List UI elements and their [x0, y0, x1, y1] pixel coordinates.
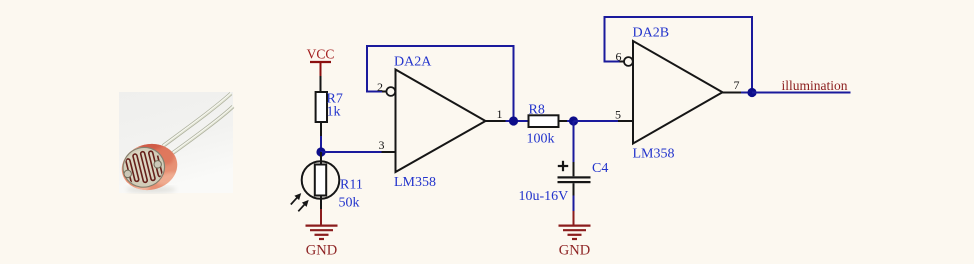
wire node to pin 5: [574, 120, 619, 122]
svg-text:100k: 100k: [527, 132, 555, 147]
wire R8 to node: [559, 120, 568, 122]
wire output pin 7: [723, 92, 742, 94]
svg-text:R8: R8: [529, 102, 545, 117]
svg-text:10u-16V: 10u-16V: [519, 189, 569, 204]
lead 1: [163, 93, 231, 146]
zigzag electrode: [125, 148, 163, 185]
pin 2 bubble: [386, 87, 395, 96]
svg-text:6: 6: [616, 50, 622, 64]
svg-text:2: 2: [377, 80, 383, 94]
LDR photo: [116, 92, 233, 197]
photoresistor R11: [302, 161, 340, 199]
wire node to pin 3: [321, 151, 382, 153]
wire illumination net: [752, 92, 851, 94]
svg-text:R11: R11: [340, 178, 363, 193]
wire R7 to node (lead + wire): [320, 122, 322, 136]
svg-text:C4: C4: [592, 161, 608, 176]
wire C4 to GND: [573, 183, 575, 195]
LDR body: [116, 134, 183, 197]
feedback wire output to pin 6: [605, 17, 753, 93]
svg-text:DA2A: DA2A: [394, 55, 432, 70]
svg-text:GND: GND: [306, 243, 337, 259]
svg-text:3: 3: [379, 138, 385, 152]
wire R11 to GND: [320, 196, 322, 210]
svg-text:DA2B: DA2B: [633, 26, 670, 41]
svg-text:LM358: LM358: [394, 175, 436, 190]
wire node to C4: [573, 121, 575, 162]
svg-text:VCC: VCC: [307, 47, 335, 62]
resistor R8: [529, 115, 559, 127]
light arrow 1: [291, 193, 301, 204]
LDR face: [118, 142, 169, 192]
wire output pin 1: [486, 120, 506, 122]
junction node R7/R11/pin3: [316, 147, 325, 156]
junction node output/illumination: [747, 88, 756, 97]
wire node to R11: [320, 152, 322, 164]
capacitor C4: [558, 176, 591, 183]
wire VCC to R7 (pin lead): [320, 76, 322, 92]
electrode dots: [123, 169, 132, 178]
ground symbol 2: [559, 226, 591, 259]
feedback wire output to pin 2: [367, 46, 514, 121]
svg-text:illumination: illumination: [782, 78, 848, 93]
svg-text:50k: 50k: [339, 195, 360, 210]
svg-text:LM358: LM358: [633, 147, 675, 162]
light arrow 2: [298, 200, 308, 211]
pin 6 bubble: [624, 57, 633, 66]
VCC power symbol: [307, 47, 335, 77]
plus sign of C4: [558, 161, 568, 171]
op-amp U1A (DA2A): [396, 70, 486, 173]
ground symbol 1: [306, 226, 338, 259]
op-amp U1B (DA2B): [633, 41, 723, 144]
junction node R8/C4/pin5: [569, 116, 578, 125]
svg-text:GND: GND: [559, 243, 590, 259]
svg-text:7: 7: [734, 78, 740, 92]
svg-text:1: 1: [497, 107, 503, 121]
junction node output/feedback: [509, 116, 518, 125]
svg-text:1k: 1k: [327, 105, 341, 120]
resistor R7: [316, 92, 327, 122]
svg-text:5: 5: [615, 108, 621, 122]
lead 2: [170, 106, 233, 155]
